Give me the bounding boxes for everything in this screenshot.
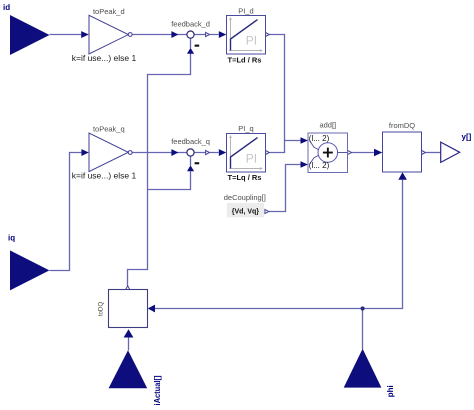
svg-text:phi: phi	[386, 385, 395, 397]
svg-text:id: id	[3, 3, 10, 12]
svg-text:{Vd, Vq}: {Vd, Vq}	[232, 208, 260, 215]
svg-text:iq: iq	[8, 234, 15, 243]
svg-text:k=if use...) else 1: k=if use...) else 1	[72, 53, 137, 63]
svg-text:iActual[]: iActual[]	[153, 375, 162, 405]
svg-text:toDQ: toDQ	[97, 302, 104, 317]
svg-text:toPeak_d: toPeak_d	[93, 7, 125, 16]
svg-text:toPeak_q: toPeak_q	[93, 125, 125, 134]
svg-text:fromDQ: fromDQ	[389, 121, 415, 130]
svg-text:y[]: y[]	[462, 132, 472, 141]
svg-text:feedback_q: feedback_q	[171, 137, 210, 146]
svg-text:T=Lq / Rs: T=Lq / Rs	[228, 173, 262, 182]
svg-text:PI_q: PI_q	[238, 124, 253, 133]
svg-text:(l... 2): (l... 2)	[309, 134, 330, 143]
svg-text:add[]: add[]	[319, 121, 336, 130]
svg-text:k=if use...) else 1: k=if use...) else 1	[72, 171, 137, 181]
svg-text:feedback_d: feedback_d	[171, 19, 210, 28]
svg-text:PI: PI	[246, 33, 257, 47]
svg-text:T=Ld / Rs: T=Ld / Rs	[228, 56, 262, 65]
svg-text:deCoupling[]: deCoupling[]	[224, 193, 266, 202]
svg-text:PI_d: PI_d	[238, 6, 253, 15]
svg-text:PI: PI	[246, 151, 257, 165]
svg-text:(l... 2): (l... 2)	[309, 161, 330, 170]
